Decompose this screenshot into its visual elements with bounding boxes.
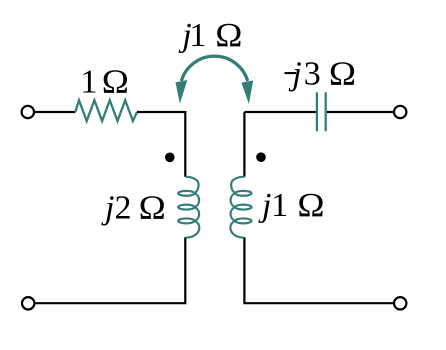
wire: top-left lead from terminal to resistor (34, 111, 76, 113)
mutual coupling arc j1ohm (181, 56, 247, 81)
wire: coil L1 bottom down and left along bottom rail (34, 237, 185, 303)
svg-text:1: 1 (189, 17, 206, 54)
svg-text:Ω: Ω (102, 63, 129, 101)
svg-text:Ω: Ω (329, 55, 356, 93)
wire: right branch vertical down to coil L2 top (243, 112, 245, 177)
polarity dot right (256, 152, 266, 162)
resistor R 1ohm zigzag (75, 100, 137, 121)
label j1 ohm (right coil) (258, 186, 325, 224)
wire: capacitor right plate to top-right terminal (327, 111, 394, 113)
svg-text:2: 2 (115, 189, 132, 226)
label j1 ohm (mutual) (178, 16, 242, 54)
svg-text:1: 1 (80, 64, 97, 101)
svg-text:1: 1 (271, 187, 288, 224)
svg-text:Ω: Ω (215, 16, 242, 54)
svg-text:Ω: Ω (297, 186, 324, 224)
coupling arrowhead right (241, 80, 253, 104)
terminal bottom-right (394, 297, 406, 309)
wire: right branch top corner to capacitor left plate (244, 111, 316, 113)
coupling arrowhead left (176, 80, 188, 104)
svg-text:Ω: Ω (139, 188, 166, 226)
svg-text:3: 3 (304, 56, 321, 93)
polarity dot left (165, 153, 175, 163)
capacitor C -j3ohm plates (317, 92, 326, 131)
terminal top-left (22, 106, 34, 118)
label 1 ohm (resistor) (80, 63, 129, 101)
label -j3 ohm (capacitor) (285, 55, 357, 93)
inductor L1 j2ohm (left coil) (178, 177, 199, 238)
inductor L2 j1ohm (right coil, mirror of left) (230, 177, 251, 238)
terminal top-right (394, 106, 406, 118)
wire: resistor to left branch corner, down to coil L1 top (137, 112, 185, 177)
label j2 ohm (left coil) (101, 188, 166, 226)
terminal bottom-left (22, 297, 34, 309)
wire: coil L2 bottom down and right along bottom rail (244, 237, 394, 303)
